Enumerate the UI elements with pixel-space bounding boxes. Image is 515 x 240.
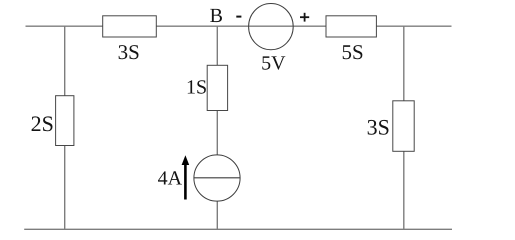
svg-text:4A: 4A bbox=[158, 168, 183, 190]
svg-text:B: B bbox=[210, 5, 223, 27]
svg-text:3S: 3S bbox=[118, 40, 140, 64]
svg-text:2S: 2S bbox=[31, 111, 54, 136]
svg-text:5S: 5S bbox=[342, 40, 364, 64]
svg-text:3S: 3S bbox=[367, 114, 390, 139]
svg-text:5V: 5V bbox=[261, 52, 286, 74]
svg-text:1S: 1S bbox=[186, 77, 207, 99]
